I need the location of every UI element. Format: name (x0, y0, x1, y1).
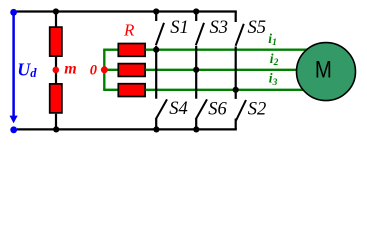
svg-text:S4: S4 (169, 99, 188, 119)
junction S4 bottom bus (153, 126, 159, 132)
wire divider middle upper (55, 57, 57, 67)
node + terminal (blue dot top) (10, 9, 17, 16)
node - terminal (blue dot bottom) (10, 126, 17, 133)
wire phase1 green (145, 49, 307, 51)
switch S5 blade (236, 24, 244, 46)
wire divider column bottom (55, 114, 57, 130)
switch S6 blade (196, 99, 207, 119)
resistor divider lower (50, 84, 62, 113)
wire divider middle lower (55, 73, 57, 84)
svg-text:S1: S1 (170, 18, 189, 38)
switch S6 bottom stub (195, 119, 197, 130)
switch S1 top stub (155, 12, 157, 22)
node 0 (red dot) (101, 66, 108, 73)
junction phase1 tap (153, 47, 159, 53)
wire phase3 green (145, 89, 304, 91)
svg-text:S3: S3 (210, 18, 229, 38)
switch S3 top stub (195, 12, 197, 22)
junction S3 top bus (193, 8, 199, 14)
junction S6 bottom bus (193, 126, 199, 132)
junction S1 top bus (153, 8, 159, 14)
svg-text:0: 0 (90, 62, 97, 78)
switch S1 blade (156, 23, 164, 46)
switch S4 bottom stub (155, 119, 157, 130)
motor M circle (297, 43, 356, 101)
wire column1 vertical (155, 46, 157, 99)
svg-text:R: R (123, 20, 135, 39)
arrow Ud direction (10, 116, 18, 124)
svg-text:S5: S5 (248, 18, 267, 38)
switch S4 blade (156, 99, 167, 119)
svg-text:S2: S2 (248, 99, 266, 119)
wire divider column top (55, 12, 57, 28)
wire column3 vertical (235, 47, 237, 99)
node m (red dot) (53, 67, 60, 74)
junction phase3 tap (233, 87, 239, 93)
junction divider bottom bus (53, 126, 59, 132)
switch S3 blade (196, 23, 204, 46)
wire green stub phase3 left (103, 89, 118, 91)
resistor R phase2 (118, 64, 145, 77)
svg-text:M: M (315, 56, 332, 83)
wire top DC bus (17, 10, 237, 12)
switch S5 top stub (235, 12, 237, 23)
resistor divider upper (50, 27, 62, 56)
svg-text:m: m (64, 61, 76, 78)
wire green stub phase2 left (104, 69, 118, 71)
wire green stub phase1 left (103, 49, 118, 51)
junction phase2 tap (193, 67, 199, 73)
wire green star connector vertical (103, 50, 105, 90)
switch S2 blade (236, 100, 246, 121)
voltage source Ud line (12, 14, 15, 116)
wire column2 vertical (195, 46, 197, 99)
svg-text:S6: S6 (208, 99, 227, 119)
wire bottom DC bus (17, 128, 237, 130)
wire phase2 green (145, 69, 298, 71)
resistor R phase3 (118, 84, 145, 97)
switch S2 bottom stub (235, 119, 237, 130)
resistor R phase1 (118, 44, 145, 57)
junction divider top bus (53, 8, 59, 14)
